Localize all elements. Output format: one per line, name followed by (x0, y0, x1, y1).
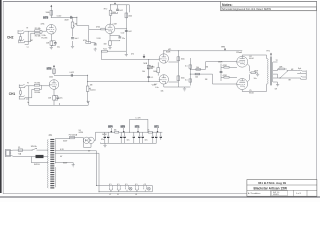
tube V1b triode (105, 24, 115, 34)
svg-text:R6 68k: R6 68k (35, 92, 41, 94)
svg-text:HT1: HT1 (154, 126, 159, 128)
svg-text:CH1: CH1 (9, 92, 16, 96)
resistor R grid jack CH1 (20, 91, 22, 94)
PI bottom wire (164, 84, 191, 88)
svg-text:1M: 1M (205, 79, 208, 81)
mains transformer T1 primary (46, 139, 49, 188)
svg-text:0.022: 0.022 (70, 72, 75, 74)
svg-text:F2 500mA: F2 500mA (69, 134, 78, 137)
drawing frame (3, 1, 316, 193)
resistor R20 (279, 68, 284, 70)
svg-text:100k: 100k (153, 71, 157, 73)
svg-text:470k: 470k (96, 27, 100, 29)
svg-text:0R: 0R (275, 88, 278, 90)
choke L1 loop (130, 119, 148, 132)
svg-text:HT2: HT2 (104, 9, 107, 11)
resistor R11 anode (53, 69, 56, 74)
svg-text:F1: F1 (18, 147, 20, 149)
svg-text:Tone: Tone (103, 48, 107, 50)
svg-text:10k: 10k (196, 67, 199, 69)
wires CH1 (26, 86, 35, 106)
svg-text:HT1: HT1 (168, 49, 171, 51)
svg-text:T2: T2 (276, 60, 278, 62)
notes box (221, 2, 317, 11)
svg-text:Hi: Hi (27, 82, 29, 84)
svg-text:10k: 10k (114, 130, 117, 132)
svg-text:V1.B: V1.B (97, 38, 102, 40)
NFB node (148, 60, 150, 82)
grid feed lower (190, 74, 236, 84)
HT1 centre tap arrow (270, 55, 272, 57)
fuse F1 (18, 149, 22, 151)
HT2 tap arrow (137, 128, 139, 132)
capacitor C10 screen (220, 72, 223, 73)
svg-text:Spk: Spk (298, 68, 301, 70)
svg-text:22u: 22u (57, 47, 60, 49)
resistor R10 68k (34, 89, 39, 91)
ground (276, 85, 279, 87)
resistor R6 grid (101, 28, 106, 30)
svg-text:1M: 1M (206, 67, 209, 69)
HT3 supply arrow (50, 7, 52, 18)
earth wire (31, 157, 48, 163)
heater V2 (117, 186, 121, 192)
resistor R22 (148, 131, 152, 133)
filter capacitors C13 C14 (120, 132, 126, 143)
svg-text:L1 5H: L1 5H (136, 118, 141, 120)
svg-text:Lo: Lo (27, 102, 29, 104)
svg-text:EL84: EL84 (249, 58, 253, 60)
svg-text:T2A: T2A (18, 152, 22, 155)
anode out + vertical bus (115, 5, 127, 51)
svg-text:1k8: 1k8 (48, 98, 51, 100)
svg-text:1.5M: 1.5M (113, 24, 117, 26)
CH2 input jack J1 (18, 30, 25, 34)
svg-text:32u: 32u (127, 140, 130, 142)
plate wires to OT (242, 55, 266, 59)
svg-text:1k8: 1k8 (46, 43, 49, 45)
capacitor C9 (189, 79, 192, 82)
resistor R5 anode (110, 5, 112, 24)
svg-text:0.1: 0.1 (185, 65, 188, 67)
svg-text:1 of 1: 1 of 1 (296, 193, 302, 195)
svg-text:125mA: 125mA (236, 51, 242, 54)
resistor R9 68k (34, 84, 39, 86)
arrow tone input (143, 54, 145, 56)
HT1 supply arrow (224, 49, 226, 52)
svg-text:0.1: 0.1 (151, 77, 154, 79)
title block (247, 180, 317, 197)
tube V2a PI (159, 54, 168, 63)
svg-text:0.02: 0.02 (121, 33, 125, 35)
signal wire to PI grid (102, 59, 160, 61)
resistor R3 anode 100k (50, 11, 53, 16)
CH1 input jack J4 (19, 96, 26, 100)
svg-text:50u: 50u (254, 78, 257, 80)
svg-text:22u: 22u (60, 97, 63, 99)
filter capacitors C18 C19 (152, 132, 158, 143)
B+ takeoff (94, 132, 95, 140)
svg-text:R5 68k: R5 68k (35, 83, 41, 85)
cathode network EL84 (247, 64, 251, 82)
svg-text:0.1: 0.1 (185, 80, 188, 82)
speaker jack J5 (297, 70, 306, 74)
svg-text:030509: 030509 (273, 194, 279, 196)
svg-text:22u: 22u (122, 38, 125, 40)
capacitor C3 cathode (54, 43, 57, 44)
svg-text:470R: 470R (223, 65, 228, 67)
HT wire to power stage (164, 51, 242, 54)
wire anode to coupling (51, 16, 77, 18)
svg-text:47k: 47k (131, 53, 134, 55)
svg-text:Hi: Hi (27, 28, 29, 30)
tube V1a triode (47, 25, 57, 35)
svg-text:4 5: 4 5 (144, 184, 147, 186)
output transformer T2 (266, 59, 269, 85)
wire to V1b grid (77, 17, 101, 29)
svg-text:470k: 470k (41, 24, 45, 26)
svg-text:A. Thimbleton: A. Thimbleton (248, 192, 260, 195)
capacitor C6 (71, 74, 72, 77)
svg-text:100k: 100k (181, 58, 185, 60)
svg-text:240V: 240V (36, 157, 41, 159)
filter capacitors C11 C12 (104, 132, 110, 143)
filter capacitors C16 C17 (138, 132, 144, 143)
svg-text:4 5: 4 5 (135, 184, 138, 186)
page bottom edge shadow (0, 196, 320, 197)
svg-text:1k: 1k (148, 130, 150, 132)
svg-text:0.02: 0.02 (128, 31, 132, 33)
svg-text:R2 68k: R2 68k (35, 35, 41, 37)
CH1 input jack J3 (19, 84, 26, 88)
grid feed upper (190, 62, 236, 70)
svg-text:HT1: HT1 (267, 51, 270, 53)
svg-text:HT2: HT2 (135, 126, 140, 128)
svg-text:100k: 100k (46, 12, 50, 14)
svg-text:0.1u: 0.1u (155, 87, 159, 89)
svg-text:Notes:: Notes: (222, 3, 233, 7)
heater V5 with pilot lamp (144, 186, 147, 192)
svg-text:PT1: PT1 (49, 135, 52, 137)
speaker jack J6 (297, 76, 306, 80)
wire grid CH2 (25, 31, 35, 44)
svg-text:10k: 10k (195, 77, 198, 79)
impedance selector SW2 (278, 71, 298, 78)
tube V5 EL84 (237, 79, 248, 90)
resistor R17 grid stopper (195, 73, 200, 75)
svg-text:4 5: 4 5 (117, 184, 120, 186)
svg-text:220k: 220k (128, 16, 132, 18)
cathode network V3a (54, 89, 58, 105)
svg-text:HT3: HT3 (121, 126, 126, 128)
svg-text:10k: 10k (161, 90, 164, 92)
capacitor C1 coupling (70, 16, 71, 19)
svg-text:4 5: 4 5 (125, 184, 128, 186)
capacitor C5 (125, 31, 128, 32)
svg-text:GZ34: GZ34 (102, 134, 107, 136)
tube V3a triode (49, 80, 59, 90)
svg-text:470R: 470R (223, 75, 228, 77)
secondary taps (273, 62, 279, 85)
svg-text:ECC83: ECC83 (147, 68, 153, 70)
HT secondary tap to fuse F2 (55, 138, 83, 141)
svg-text:0.022: 0.022 (57, 15, 62, 17)
tube V4 EL84 (237, 56, 248, 67)
svg-text:R1 68k: R1 68k (35, 28, 41, 30)
CH2 input jack J2 (19, 40, 26, 44)
svg-text:Lo: Lo (27, 47, 29, 49)
svg-text:32u: 32u (101, 139, 104, 141)
capacitor C2 (71, 38, 74, 39)
resistor R1 68k (35, 30, 40, 32)
ground (125, 55, 128, 57)
transformer T1 HT secondary (54, 139, 57, 163)
svg-text:130R: 130R (218, 62, 223, 64)
mixer parts (89, 29, 96, 49)
heater taps (55, 151, 96, 186)
volume pot VR2 (87, 75, 89, 103)
svg-text:32u: 32u (145, 140, 148, 142)
cathode network V1b (110, 34, 120, 48)
CT tap to ground (55, 163, 73, 165)
resistor R14 100k (177, 57, 180, 61)
transformer T1 core (50, 139, 54, 189)
heater V3 with pilot lamp (126, 186, 129, 192)
cathode network V1a (51, 34, 55, 47)
svg-text:NFB: NFB (144, 63, 148, 65)
svg-text:V4: V4 (135, 194, 137, 196)
resistor R grid jack CH2 (20, 37, 22, 40)
svg-text:CH2: CH2 (7, 36, 14, 40)
resistor R15 100k (177, 76, 180, 81)
live wire (13, 149, 49, 151)
svg-text:HT3: HT3 (43, 15, 48, 19)
svg-text:130R: 130R (254, 71, 259, 73)
tube V2b PI (159, 75, 168, 84)
resistor R4 cathode (50, 41, 53, 45)
volume pot VR1 chain (72, 17, 74, 46)
svg-text:4 5: 4 5 (109, 184, 112, 186)
svg-text:820R: 820R (166, 52, 171, 54)
PI cathode resistor R13 (157, 62, 159, 75)
svg-text:ECC83: ECC83 (42, 37, 48, 39)
capacitor C4 (111, 5, 118, 14)
screen bus (220, 64, 222, 81)
svg-text:0.02: 0.02 (119, 10, 123, 12)
svg-text:10k: 10k (142, 71, 145, 73)
resistor R21 (115, 131, 119, 133)
ground rail (100, 143, 156, 146)
ground (50, 47, 53, 49)
svg-text:061 B.T.M.E. Aug 09: 061 B.T.M.E. Aug 09 (258, 181, 286, 185)
svg-text:HT3: HT3 (47, 67, 52, 70)
svg-text:V2: V2 (117, 194, 119, 196)
neutral wire (13, 156, 49, 158)
resistor R16 grid stopper (196, 69, 201, 71)
HT2 rail stage 2 (111, 5, 130, 13)
page left edge dark strip (0, 0, 2, 193)
rectifier V6 GZ34 (83, 137, 89, 143)
svg-text:1M: 1M (30, 40, 33, 42)
IEC mains inlet (5, 150, 10, 157)
svg-text:HT1: HT1 (222, 46, 225, 48)
resistor R7 (125, 13, 128, 18)
ground (71, 46, 74, 48)
coupling bus (189, 58, 191, 86)
B+ rail (96, 131, 163, 133)
heater bus (96, 186, 152, 192)
svg-text:HT4: HT4 (108, 125, 113, 128)
capacitor C8 (189, 65, 192, 68)
svg-text:470k: 470k (83, 40, 87, 42)
resistor R19 screen 470R (224, 76, 229, 78)
svg-text:SW1.A: SW1.A (31, 145, 37, 148)
svg-text:100k: 100k (49, 77, 53, 79)
switch SW1.A (32, 148, 36, 150)
svg-text:450V: 450V (64, 19, 69, 21)
svg-text:Volume: Volume (90, 90, 96, 92)
HT3 supply arrow (53, 67, 55, 75)
svg-text:EL84: EL84 (249, 92, 253, 94)
capacitor C7 (56, 97, 59, 98)
svg-text:1k8: 1k8 (104, 44, 107, 46)
svg-text:325V: 325V (63, 141, 68, 143)
svg-text:0V: 0V (60, 156, 63, 158)
svg-text:Blackstar Artisan 15W: Blackstar Artisan 15W (254, 187, 288, 191)
heater V1 (109, 186, 113, 192)
resistor R12 (53, 96, 56, 101)
svg-text:100k: 100k (112, 12, 116, 14)
heater V4 (135, 186, 139, 192)
svg-text:Schematic Engineered from Unit: Schematic Engineered from Unit. Dated: S… (222, 8, 272, 11)
svg-text:V1: V1 (109, 194, 111, 196)
resistor R8 tone (102, 50, 108, 52)
voltage selector block (36, 155, 44, 158)
svg-text:1M: 1M (90, 85, 93, 87)
svg-text:8R: 8R (289, 79, 292, 81)
anode wire to pot (54, 74, 88, 76)
HT1 tap arrow (157, 128, 159, 132)
ground bus (29, 102, 88, 106)
transformer T1 heater secondary (54, 167, 57, 187)
svg-text:Vol.2: Vol.2 (75, 38, 79, 40)
HT4 tap arrow (110, 128, 112, 132)
svg-text:SW1.B: SW1.B (34, 164, 40, 166)
resistor R2 68k (35, 32, 40, 34)
svg-text:GZ34: GZ34 (79, 132, 84, 134)
resistor R18 screen 470R (224, 66, 229, 68)
ground (183, 89, 186, 91)
filter capacitor C15 (133, 132, 135, 143)
PI plate bus (169, 51, 179, 87)
HT3 tap arrow (123, 128, 125, 132)
filter capacitor C20 (160, 132, 162, 140)
